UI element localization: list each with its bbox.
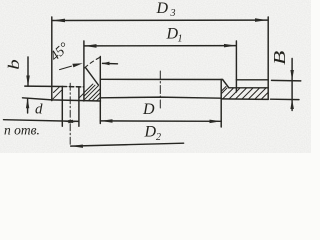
dimension b down arrow: [26, 76, 30, 87]
left rim top line + b extension: [25, 85, 63, 87]
flange axis centerline: [159, 71, 161, 110]
dimension b line upper: [27, 57, 29, 86]
extension line D1 right: [235, 41, 237, 92]
bolt hole left wall: [61, 87, 63, 127]
svg-text:n отв.: n отв.: [4, 123, 40, 138]
dimension D3 line: [52, 19, 267, 21]
svg-text:D: D: [142, 101, 155, 118]
dimension d line with shelf: [4, 120, 79, 122]
right bevel diagonal: [223, 80, 229, 88]
D extension left (below body): [99, 101, 101, 124]
bore left wall: [99, 57, 101, 102]
dimension d left arrow: [62, 120, 73, 123]
B extension bottom: [271, 98, 300, 100]
dimension B line: [291, 59, 293, 111]
dimension B down arrow: [290, 70, 294, 80]
B extension top: [272, 79, 301, 82]
chamfer arrow left-pointing with tail: [103, 62, 118, 64]
chamfer arrow right-pointing: [60, 66, 72, 70]
extension line D3 left / body left edge: [51, 17, 53, 101]
dimension b line lower: [27, 98, 29, 113]
chamfer 45 dashed arc: [85, 57, 100, 68]
extension line D1 left / boss left edge: [83, 41, 85, 101]
bolt hole centerline: [69, 83, 71, 146]
extension line D3 right / body right edge: [267, 17, 269, 99]
dimension D right arrow: [210, 120, 222, 124]
bottom face right: [221, 98, 268, 101]
right rim top line: [236, 79, 268, 81]
dimension B up arrow: [290, 99, 294, 109]
svg-text:b: b: [6, 59, 23, 69]
svg-text:D: D: [144, 124, 157, 141]
svg-text:d: d: [35, 102, 43, 118]
dimension D2 left arrow: [71, 145, 83, 148]
dimension D1 left arrow: [84, 44, 96, 48]
dimension b up arrow: [26, 98, 29, 108]
svg-text:3: 3: [170, 8, 176, 19]
bore right wall / D extension right: [220, 79, 222, 127]
chamfer diagonal: [86, 68, 99, 85]
dimension d right arrow: [68, 120, 79, 123]
top face line: [100, 78, 222, 80]
flange sectional drawing: [0, 0, 311, 153]
svg-text:D: D: [156, 0, 169, 17]
dimension D left arrow: [100, 119, 112, 123]
dimension D3 left arrow: [52, 19, 65, 23]
dimension D1 right arrow: [224, 44, 236, 48]
svg-text:2: 2: [156, 132, 161, 143]
dimension D line: [100, 120, 221, 122]
svg-text:1: 1: [178, 34, 183, 45]
dimension D3 right arrow: [255, 18, 267, 22]
bottom line across bore: [100, 97, 221, 98]
hatch left boss: [84, 84, 100, 101]
bolt hole right wall: [78, 87, 80, 127]
right groove top line: [229, 87, 268, 89]
dimension D1 line: [84, 45, 236, 47]
label D3: [4, 0, 289, 143]
dimension D2 line: [71, 143, 184, 146]
bottom face left + b extension: [23, 98, 101, 101]
hatch left sliver: [53, 87, 84, 99]
hatch right band: [216, 87, 273, 100]
svg-text:B: B: [271, 50, 289, 65]
